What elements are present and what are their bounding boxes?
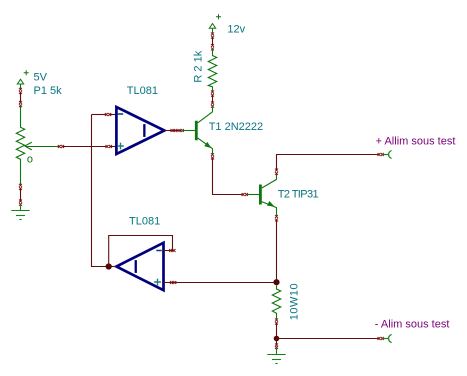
node: right ground x-marks	[275, 343, 278, 349]
U1 minus sign	[118, 113, 123, 115]
svg-text:- Alim sous test: - Alim sous test	[375, 319, 450, 331]
U1 I mark	[143, 124, 145, 137]
svg-text:TL081: TL081	[129, 216, 160, 228]
wire T2 emitter down to sense node	[276, 220, 278, 282]
resistor R2 1k	[208, 49, 216, 91]
node: + terminal x-marks	[378, 153, 384, 156]
U2 I mark	[135, 260, 137, 273]
wire supply to potentiometer	[20, 93, 22, 102]
node: U2 - input x-marks	[169, 249, 175, 252]
power +5V symbol	[17, 70, 28, 88]
ground (left)	[11, 204, 29, 219]
node: T1 emitter x-marks	[211, 153, 214, 159]
potentiometer P1	[16, 106, 58, 185]
U1 plus sign	[117, 143, 124, 150]
wire R2 to T1 collector	[212, 95, 214, 102]
wire U2 feedback (- input to output node)	[109, 236, 173, 267]
junction dot U2 output node	[106, 263, 112, 269]
resistor 10W10	[272, 285, 280, 319]
node: T2 emitter x-marks	[275, 215, 278, 221]
node: U2 + input x-marks	[170, 281, 176, 284]
op-amp U1 TL081	[116, 107, 164, 154]
node: 10W10 bottom x-marks	[275, 318, 278, 324]
wire U2 + input to sense node	[164, 282, 274, 284]
junction dot sense node	[273, 279, 279, 285]
power +12v symbol	[209, 14, 221, 33]
node: T2 collector x-marks	[275, 169, 278, 175]
svg-text:o: o	[27, 153, 33, 165]
svg-text:T1 2N2222: T1 2N2222	[209, 121, 263, 133]
svg-text:R 2 1k: R 2 1k	[192, 50, 204, 82]
terminal - Alim sous test	[382, 334, 391, 342]
transistor T2 TIP31	[246, 174, 276, 216]
U2 plus sign	[154, 279, 161, 286]
wire T2 collector to + terminal	[277, 155, 379, 171]
wire 10W10 to bottom node	[276, 323, 278, 338]
svg-text:T2 TIP31: T2 TIP31	[278, 189, 319, 201]
node: pot top pin x-marks	[19, 101, 22, 107]
wire bottom node to - terminal	[277, 338, 379, 340]
wire 12v to R2	[212, 37, 214, 45]
U2 minus sign	[156, 250, 161, 252]
node: - terminal x-marks	[378, 337, 384, 340]
label 10W10 (rotated)	[288, 283, 300, 320]
U2 output pin to node	[109, 266, 117, 268]
wire op-amp U1 - input from node vertical	[92, 114, 106, 116]
wire U1 inverting input down to U2 output node	[92, 115, 109, 267]
wire pot wiper to op-amp U1 + input	[58, 145, 64, 148]
node: T2 base x-marks	[242, 193, 248, 196]
node: T1 collector x-marks	[211, 101, 214, 107]
svg-text:P1 5k: P1 5k	[34, 85, 63, 97]
ground (right)	[267, 348, 285, 364]
node: R2 top x-marks	[211, 44, 214, 50]
wire pot to ground	[20, 189, 22, 201]
op-amp U2 TL081 (mirrored)	[116, 243, 163, 290]
terminal + Allim sous test	[382, 151, 391, 159]
node: R2 bottom x-marks	[211, 90, 214, 96]
wire U1 output to T1 base	[164, 130, 181, 132]
svg-text:12v: 12v	[227, 23, 245, 35]
wire T1 emitter to T2 base	[213, 158, 243, 195]
wire bottom node to ground	[276, 339, 278, 345]
node: 12v pin x-marks	[211, 32, 214, 38]
node: ground pin x-marks	[19, 200, 22, 206]
label R2 1k (rotated)	[192, 50, 204, 82]
svg-text:TL081: TL081	[127, 85, 158, 97]
svg-text:5V: 5V	[34, 71, 48, 83]
junction dot bottom node	[274, 336, 280, 342]
svg-text:10W10: 10W10	[288, 283, 300, 320]
node: supply pin x-marks	[19, 88, 22, 94]
svg-text:+ Allim sous test: + Allim sous test	[376, 136, 456, 148]
node: pot bottom x-marks	[19, 184, 22, 190]
transistor T1 2N2222	[182, 106, 213, 154]
